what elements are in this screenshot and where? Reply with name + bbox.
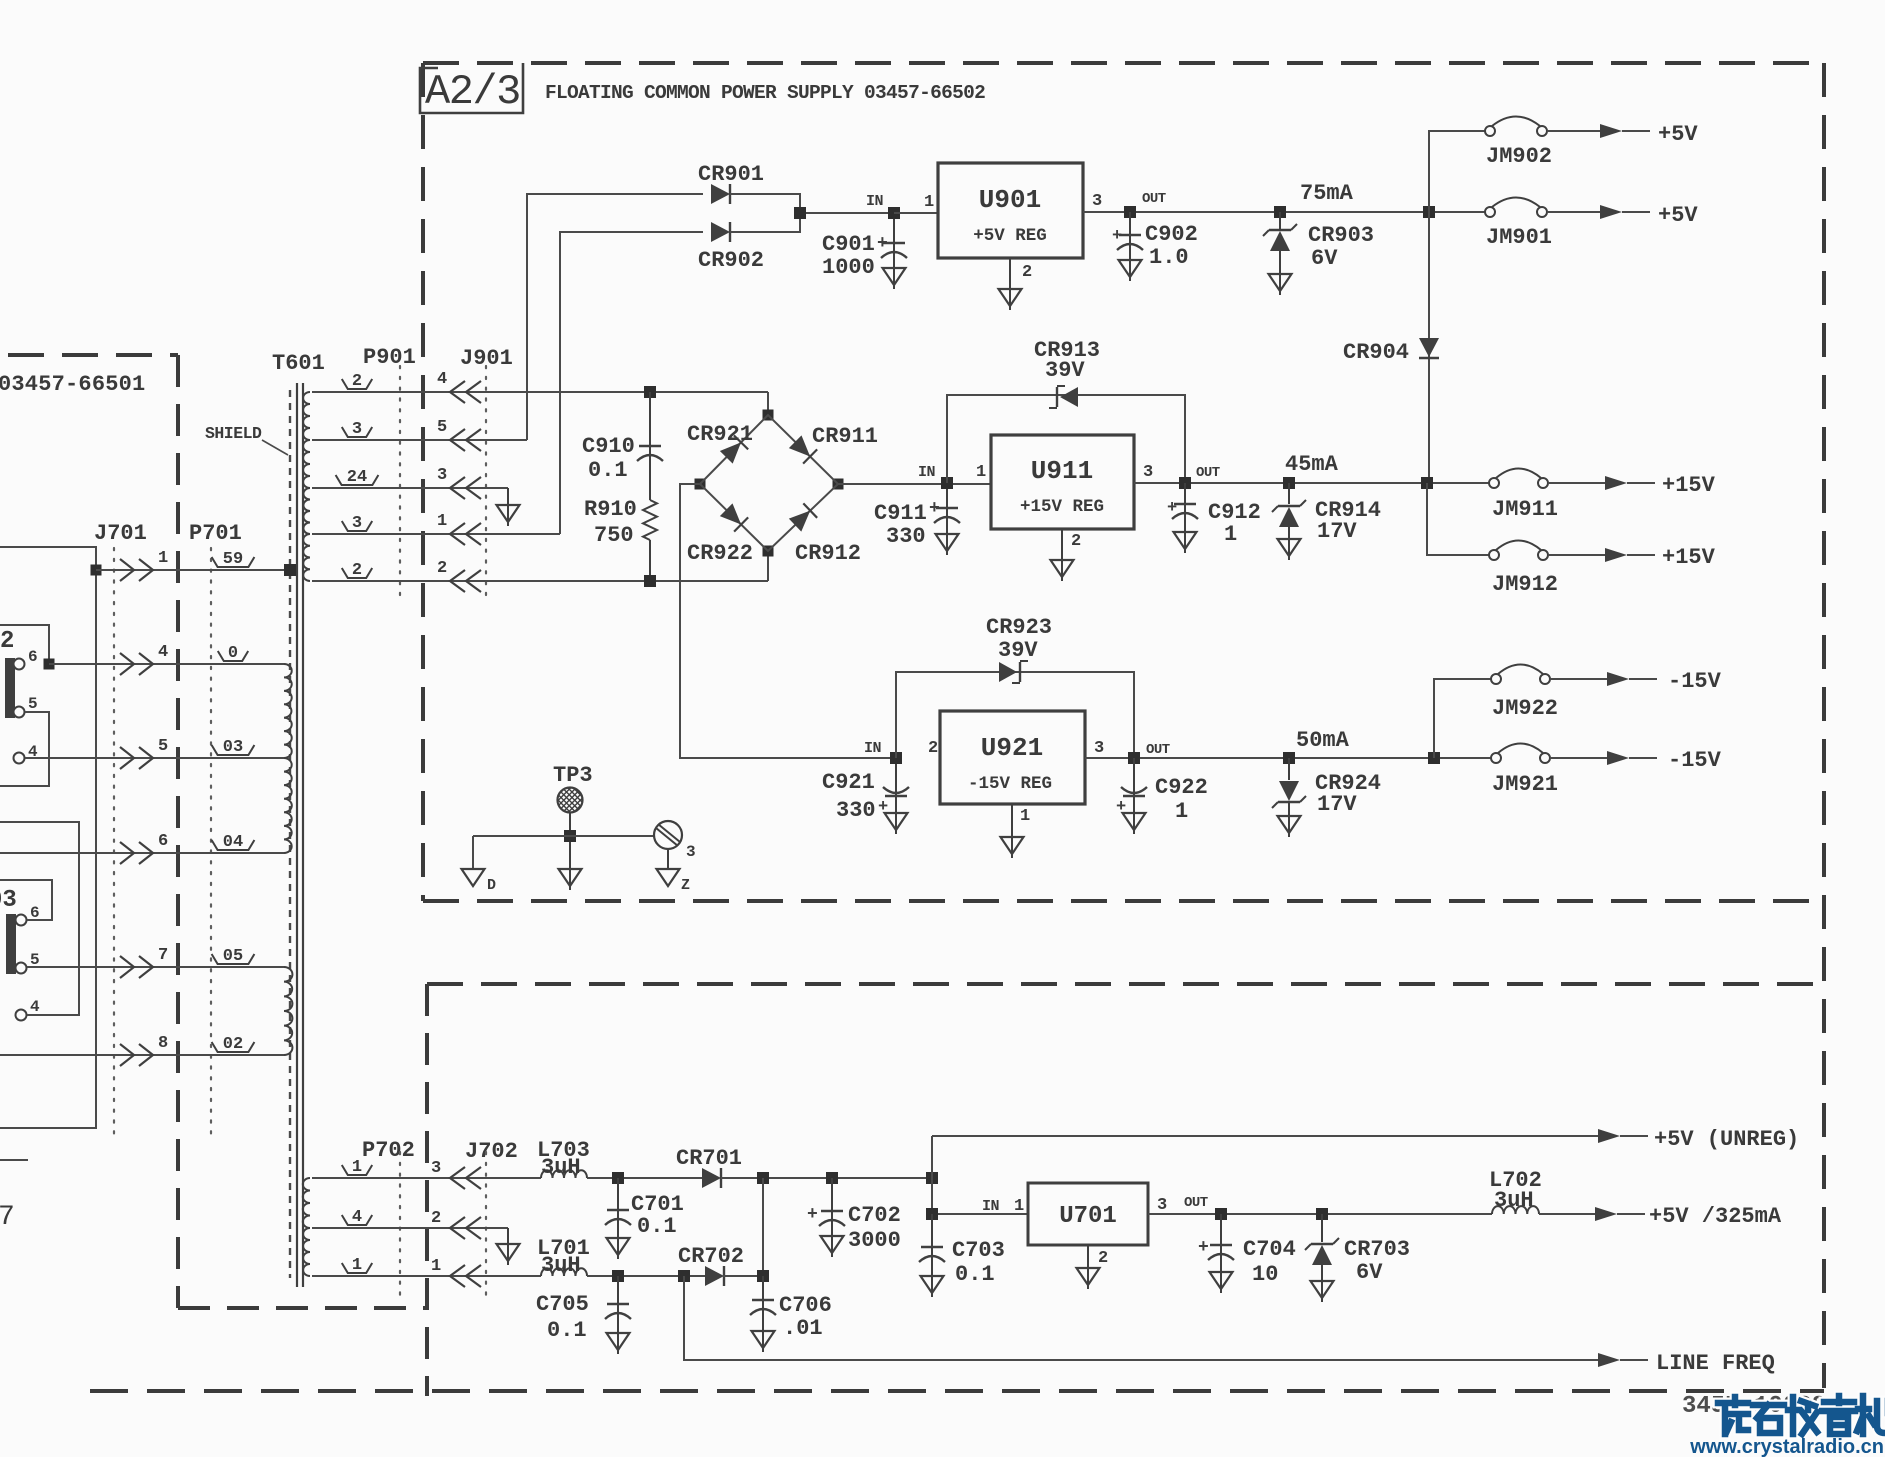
svg-text:17V: 17V — [1317, 792, 1357, 817]
wire long feed from J701 pin1 — [0, 547, 96, 1128]
svg-text:OUT: OUT — [1196, 465, 1220, 481]
svg-text:4: 4 — [30, 998, 40, 1016]
svg-text:+5V REG: +5V REG — [973, 226, 1047, 246]
svg-text:+5V /325mA: +5V /325mA — [1649, 1204, 1782, 1229]
capacitor C702 — [807, 1178, 901, 1257]
wire switch3 pin6 — [0, 880, 52, 920]
jumper JM912 — [1489, 541, 1558, 598]
svg-text:J702: J702 — [465, 1139, 518, 1164]
connector J901 dotted line — [485, 366, 487, 598]
svg-text:JM921: JM921 — [1492, 772, 1558, 797]
capacitor C910 — [582, 386, 663, 500]
svg-text:4: 4 — [158, 643, 168, 662]
wire J701 pin 6 row — [0, 852, 284, 854]
svg-text:0.1: 0.1 — [547, 1318, 587, 1343]
junction — [1215, 1208, 1227, 1220]
node bridge bottom — [763, 546, 774, 557]
transformer T601 core — [297, 383, 303, 1287]
diode CR901 — [698, 162, 764, 204]
svg-text:+15V: +15V — [1662, 545, 1716, 570]
connector J901 pin 5 chevrons — [437, 418, 481, 451]
svg-text:CR701: CR701 — [676, 1146, 742, 1171]
wire J702 pin 1 row — [312, 1275, 541, 1277]
zener CR923 loop — [896, 672, 1134, 758]
svg-text:LINE FREQ: LINE FREQ — [1656, 1351, 1775, 1376]
svg-text:.01: .01 — [783, 1316, 823, 1341]
transformer T601 primary winding upper — [284, 664, 292, 758]
svg-text:JM901: JM901 — [1486, 225, 1552, 250]
wire row A — [587, 1177, 703, 1179]
svg-text:1: 1 — [1020, 807, 1030, 826]
svg-text:C922: C922 — [1155, 775, 1208, 800]
svg-text:+: + — [1198, 1238, 1209, 1258]
zener CR913 — [1034, 338, 1100, 408]
wire number 02 — [212, 1035, 255, 1054]
svg-text:3uH: 3uH — [541, 1155, 581, 1180]
ground pin 2 U911 — [1051, 529, 1082, 581]
board outline A2/3 dashed border top — [423, 61, 1822, 65]
junction — [678, 1270, 690, 1282]
node IN U921 — [864, 740, 902, 764]
wire number 03 — [212, 738, 255, 757]
transformer T601 secondary winding upper — [303, 392, 310, 440]
svg-text:CR912: CR912 — [795, 541, 861, 566]
board outline bottom box dashed left — [425, 984, 429, 1396]
svg-text:-15V: -15V — [1668, 748, 1722, 773]
svg-text:1: 1 — [1224, 522, 1237, 547]
junction — [91, 565, 102, 576]
svg-text:CR923: CR923 — [986, 615, 1052, 640]
regulator U701 — [1028, 1183, 1167, 1245]
capacitor C901 — [822, 219, 907, 289]
junction — [757, 1270, 769, 1282]
ground — [559, 842, 582, 890]
jumper JM902 — [1485, 117, 1552, 170]
junction — [926, 1172, 938, 1184]
svg-text:2: 2 — [0, 628, 14, 655]
svg-text:750: 750 — [594, 523, 634, 548]
svg-text:U911: U911 — [1031, 456, 1093, 486]
wire number 1 — [342, 1256, 372, 1275]
svg-text:C702: C702 — [848, 1203, 901, 1228]
node IN U911 — [918, 464, 953, 489]
bridge diode CR921 — [687, 422, 753, 464]
svg-text:7: 7 — [158, 946, 168, 965]
junction — [1421, 477, 1433, 489]
connector J701 pin 4 chevrons — [120, 643, 168, 675]
svg-text:A2/3: A2/3 — [425, 68, 520, 116]
node OUT U921 — [1128, 742, 1170, 764]
connector J901 pin 2 chevrons — [437, 559, 481, 592]
board outline right dashed border — [1822, 63, 1826, 1388]
connector J701 pin 6 chevrons — [120, 832, 168, 864]
svg-text:C911: C911 — [874, 501, 927, 526]
wire J701 pin 5 row — [25, 757, 284, 759]
svg-text:CR911: CR911 — [812, 424, 878, 449]
svg-text:+: + — [878, 798, 888, 817]
wire +5V UNREG vertical — [931, 1136, 933, 1178]
svg-text:45mA: 45mA — [1285, 452, 1339, 477]
svg-text:2: 2 — [1098, 1249, 1108, 1268]
watermark crystalradio — [1689, 1396, 1885, 1457]
connector P702 label — [362, 1138, 415, 1163]
node IN U901 — [866, 193, 938, 219]
wire +5V UNREG row — [932, 1135, 1598, 1137]
svg-text:8: 8 — [158, 1034, 168, 1053]
wire to U701 IN — [932, 1178, 1028, 1214]
node OUT U911 — [1179, 465, 1220, 489]
connector J701 label — [94, 521, 147, 546]
connector J702 label — [465, 1139, 518, 1164]
bridge diode CR911 — [788, 424, 878, 464]
wire stub left edge — [0, 1159, 28, 1161]
chassis ground D — [462, 836, 497, 894]
connector P901 dotted line — [399, 366, 401, 598]
svg-text:2: 2 — [928, 739, 938, 758]
wire number 05 — [212, 947, 255, 966]
junction — [926, 1208, 938, 1220]
svg-text:39V: 39V — [1045, 358, 1085, 383]
board outline bottom box dashed top — [427, 982, 1818, 986]
svg-text:2: 2 — [1022, 263, 1032, 282]
svg-text:6: 6 — [158, 832, 168, 851]
board outline A1 dashed bottom jog — [178, 1306, 427, 1310]
svg-text:2: 2 — [1071, 532, 1081, 551]
svg-text:0.1: 0.1 — [637, 1214, 677, 1239]
svg-text:Z: Z — [681, 877, 690, 894]
regulator U901 — [924, 163, 1102, 258]
svg-text:SHIELD: SHIELD — [205, 424, 262, 443]
wire number 2 — [342, 372, 372, 391]
bridge diode CR922 — [687, 503, 753, 566]
wire J702 pin 3 row — [312, 1177, 541, 1179]
wire switch2 pin5 — [0, 712, 49, 786]
connector P702 dotted line — [399, 1152, 401, 1300]
board outline A2/3 dashed border left — [421, 63, 425, 901]
bridge diode CR912 — [788, 503, 861, 566]
label SHIELD — [205, 424, 288, 455]
svg-text:CR921: CR921 — [687, 422, 753, 447]
svg-text:U901: U901 — [979, 185, 1041, 215]
svg-text:U921: U921 — [981, 733, 1043, 763]
wire J701 pin 4 row — [49, 663, 284, 665]
svg-text:5: 5 — [28, 695, 38, 713]
transformer T601 secondary winding 2 — [303, 440, 310, 488]
svg-text:C910: C910 — [582, 434, 635, 459]
svg-text:1: 1 — [437, 512, 447, 531]
svg-text:C704: C704 — [1243, 1237, 1296, 1262]
transformer T601 secondary winding 3 — [303, 488, 310, 534]
capacitor C921 — [822, 764, 909, 834]
junction — [1428, 752, 1440, 764]
wire number 59 — [212, 550, 255, 569]
junction — [1423, 206, 1435, 218]
wire J901 pin 2 row — [312, 580, 768, 582]
transformer T601 label — [272, 351, 325, 376]
svg-text:P702: P702 — [362, 1138, 415, 1163]
svg-text:2: 2 — [437, 559, 447, 578]
wire CR702 out — [723, 1275, 763, 1277]
svg-text:+: + — [1167, 499, 1177, 518]
wire bridge right to U911 — [838, 483, 991, 485]
board outline A2/3 dashed border bottom — [423, 899, 1824, 903]
capacitor C701 — [605, 1172, 684, 1259]
connector J701 pin 7 chevrons — [120, 946, 168, 978]
svg-text:+: + — [877, 234, 888, 254]
svg-text:3: 3 — [431, 1159, 441, 1178]
wire number 04 — [212, 833, 255, 852]
node bridge right — [833, 479, 844, 490]
svg-text:0.1: 0.1 — [955, 1262, 995, 1287]
svg-text:+15V REG: +15V REG — [1020, 497, 1104, 517]
wire number 0 — [218, 644, 248, 663]
capacitor C703 — [919, 1214, 1005, 1297]
svg-text:75mA: 75mA — [1300, 181, 1354, 206]
regulator U911 — [976, 435, 1153, 529]
connector J901 pin 4 chevrons — [437, 370, 481, 403]
svg-text:+: + — [1112, 227, 1122, 246]
svg-text:+15V: +15V — [1662, 473, 1716, 498]
connector J701 pin 1 chevrons — [120, 549, 168, 581]
switch contact 3 — [0, 887, 40, 1021]
svg-text:CR903: CR903 — [1308, 223, 1374, 248]
svg-text:+: + — [1116, 798, 1126, 817]
wire J701 pin 7 row — [27, 966, 284, 968]
connector J901 pin 1 chevrons — [437, 512, 481, 545]
svg-text:IN: IN — [864, 740, 882, 757]
wire J901 pin5 to CR901 — [527, 194, 703, 440]
svg-text:2: 2 — [431, 1209, 441, 1228]
svg-text:C901: C901 — [822, 232, 875, 257]
wire CR904 vertical — [1428, 212, 1430, 483]
svg-text:J701: J701 — [94, 521, 147, 546]
capacitor C922 — [1116, 758, 1208, 834]
svg-text:OUT: OUT — [1184, 1195, 1208, 1211]
wire J901 pin 5 row — [312, 439, 527, 441]
svg-text:-15V REG: -15V REG — [968, 774, 1052, 794]
svg-text:T601: T601 — [272, 351, 325, 376]
zener CR913 loop — [947, 395, 1185, 483]
connector J702 pin 3 chevrons — [431, 1159, 481, 1189]
ground pin 2 U901 — [999, 258, 1033, 310]
svg-text:TP3: TP3 — [553, 763, 593, 788]
node bridge left — [695, 479, 706, 490]
ground pin 2 U701 — [1077, 1245, 1109, 1289]
node +15V output — [1605, 473, 1716, 498]
wire LINE FREQ — [684, 1276, 1598, 1360]
node -15V output 2 — [1607, 748, 1722, 773]
svg-text:1: 1 — [158, 549, 168, 568]
junction — [44, 659, 55, 670]
node +15V output 2 — [1605, 545, 1716, 570]
svg-text:03457-66501: 03457-66501 — [0, 372, 145, 397]
svg-text:FLOATING COMMON POWER SUPPLY 0: FLOATING COMMON POWER SUPPLY 03457-66502 — [545, 82, 985, 104]
node IN U701 — [982, 1197, 1024, 1216]
resistor R910 — [584, 497, 657, 581]
wire J701 pin 8 row — [0, 1054, 284, 1056]
wire U701 out — [1148, 1213, 1492, 1215]
node +5V UNREG output — [1598, 1127, 1799, 1152]
svg-text:JM902: JM902 — [1486, 144, 1552, 169]
svg-text:5: 5 — [158, 737, 168, 756]
wire to JM922 — [1434, 679, 1491, 758]
svg-text:+: + — [929, 499, 940, 519]
svg-text:5: 5 — [437, 418, 447, 437]
jumper JM901 — [1485, 198, 1552, 251]
wire to JM902 — [1429, 131, 1485, 212]
node bridge top — [763, 410, 774, 421]
transformer T601 secondary winding 4 — [303, 534, 310, 581]
wire JM921 out — [1550, 757, 1607, 759]
junction — [794, 207, 806, 219]
svg-text:3uH: 3uH — [541, 1253, 581, 1278]
switch contact 2 — [0, 628, 38, 764]
svg-text:1: 1 — [976, 463, 986, 482]
connector P901 label — [363, 345, 416, 370]
wire JM901 out — [1547, 211, 1600, 213]
part number 3457 — [1682, 1393, 1826, 1420]
wire J901 pin 3 row — [312, 487, 508, 489]
wire TP3 row — [473, 835, 654, 837]
svg-text:3000: 3000 — [848, 1228, 901, 1253]
svg-text:3: 3 — [1143, 463, 1153, 482]
jumper JM922 — [1491, 665, 1558, 722]
svg-text:1.0: 1.0 — [1149, 245, 1189, 270]
capacitor C706 — [750, 1276, 832, 1352]
diode CR904 — [1343, 338, 1439, 365]
wire bridge left to U921 — [680, 484, 896, 758]
svg-text:R910: R910 — [584, 497, 637, 522]
wire bridge edges — [700, 415, 838, 551]
wire number 4 — [342, 1208, 372, 1227]
connector J901 pin 3 chevrons — [437, 466, 481, 499]
connector J701 pin 8 chevrons — [120, 1034, 168, 1066]
zener CR923 — [986, 615, 1052, 683]
wire number 2 — [342, 561, 372, 580]
svg-text:OUT: OUT — [1142, 191, 1166, 207]
wire J901 pin 4 row — [312, 391, 768, 393]
svg-text:1: 1 — [1014, 1197, 1024, 1216]
svg-text:1: 1 — [431, 1257, 441, 1276]
transformer T601 bottom winding 2 — [303, 1228, 310, 1276]
svg-text:7: 7 — [0, 1202, 15, 1233]
svg-text:CR902: CR902 — [698, 248, 764, 273]
label 03457-66501 — [0, 372, 145, 397]
wire number 3 — [342, 514, 372, 533]
transformer T601 primary winding 2 — [284, 758, 292, 853]
wire U921 out — [1085, 757, 1496, 759]
board outline A1 dashed top — [8, 353, 178, 357]
svg-text:50mA: 50mA — [1296, 728, 1350, 753]
zener CR903 — [1263, 181, 1374, 295]
svg-text:+5V (UNREG): +5V (UNREG) — [1654, 1127, 1799, 1152]
wire rowA to rowB — [762, 1178, 764, 1276]
connector J702 dotted line — [485, 1152, 487, 1300]
junction — [757, 1172, 769, 1184]
regulator U921 — [928, 711, 1104, 804]
board outline bottom outer dashed border — [90, 1389, 1824, 1393]
wire switch2 pin6 feed — [0, 625, 49, 660]
junction — [826, 1172, 838, 1184]
capacitor C911 — [874, 489, 960, 555]
svg-text:JM912: JM912 — [1492, 572, 1558, 597]
screw terminal 3 — [654, 821, 696, 861]
wire JM922 out — [1550, 678, 1607, 680]
capacitor C704 — [1198, 1214, 1296, 1293]
connector J701 dotted line — [113, 548, 115, 1140]
svg-text:IN: IN — [866, 193, 884, 210]
connector J701 pin 5 chevrons — [120, 737, 168, 769]
node +5V 325mA output — [1595, 1204, 1782, 1229]
svg-text:www.crystalradio.cn: www.crystalradio.cn — [1689, 1436, 1884, 1457]
wire number 24 — [336, 468, 379, 487]
wire L702 out — [1539, 1213, 1595, 1215]
wire to JM912 — [1427, 483, 1489, 555]
wire number 3 — [342, 420, 372, 439]
svg-text:C706: C706 — [779, 1293, 832, 1318]
svg-text:3: 3 — [1157, 1196, 1167, 1215]
junction — [644, 575, 656, 587]
wire switch3 pin4 — [0, 822, 79, 1015]
inductor L703 — [537, 1138, 590, 1180]
svg-text:3: 3 — [1092, 192, 1102, 211]
svg-text:3: 3 — [686, 843, 696, 861]
junction — [564, 830, 576, 842]
svg-text:+5V: +5V — [1658, 203, 1698, 228]
wire J901 pin 1 row — [312, 533, 560, 535]
svg-text:-15V: -15V — [1668, 669, 1722, 694]
wire row A cont — [721, 1177, 932, 1179]
svg-text:CR703: CR703 — [1344, 1237, 1410, 1262]
svg-text:3uH: 3uH — [1494, 1188, 1534, 1213]
svg-text:1: 1 — [1175, 799, 1188, 824]
svg-text:CR904: CR904 — [1343, 340, 1409, 365]
svg-text:330: 330 — [886, 524, 926, 549]
svg-text:CR922: CR922 — [687, 541, 753, 566]
svg-text:C705: C705 — [536, 1292, 589, 1317]
connector J901 label — [460, 346, 513, 371]
svg-text:JM922: JM922 — [1492, 696, 1558, 721]
svg-text:17V: 17V — [1317, 519, 1357, 544]
svg-text:IN: IN — [982, 1198, 1000, 1215]
jumper JM911 — [1489, 469, 1558, 523]
wire J901 pin1 to CR902 — [560, 232, 703, 534]
svg-text:P701: P701 — [189, 521, 242, 546]
wire JM902 out — [1547, 130, 1600, 132]
svg-text:1: 1 — [924, 193, 934, 212]
svg-text:6V: 6V — [1311, 246, 1338, 271]
jumper JM921 — [1491, 744, 1558, 798]
svg-text:D: D — [487, 877, 496, 894]
node OUT U701 — [1184, 1195, 1208, 1211]
svg-text:3: 3 — [1094, 739, 1104, 758]
svg-text:330: 330 — [836, 798, 876, 823]
svg-text:10: 10 — [1252, 1262, 1278, 1287]
svg-text:CR702: CR702 — [678, 1244, 744, 1269]
svg-text:3: 3 — [437, 466, 447, 485]
svg-text:+: + — [807, 1205, 818, 1225]
title block A2/3 — [420, 63, 523, 116]
connector P701 label — [189, 521, 242, 546]
ground — [497, 488, 520, 526]
wire U901 out — [1083, 211, 1485, 213]
zener CR924 — [1272, 728, 1381, 837]
svg-text:U701: U701 — [1059, 1203, 1117, 1230]
svg-text:CR901: CR901 — [698, 162, 764, 187]
diode CR701 — [676, 1146, 742, 1188]
svg-text:1000: 1000 — [822, 255, 875, 280]
wire number 1 — [342, 1158, 372, 1177]
